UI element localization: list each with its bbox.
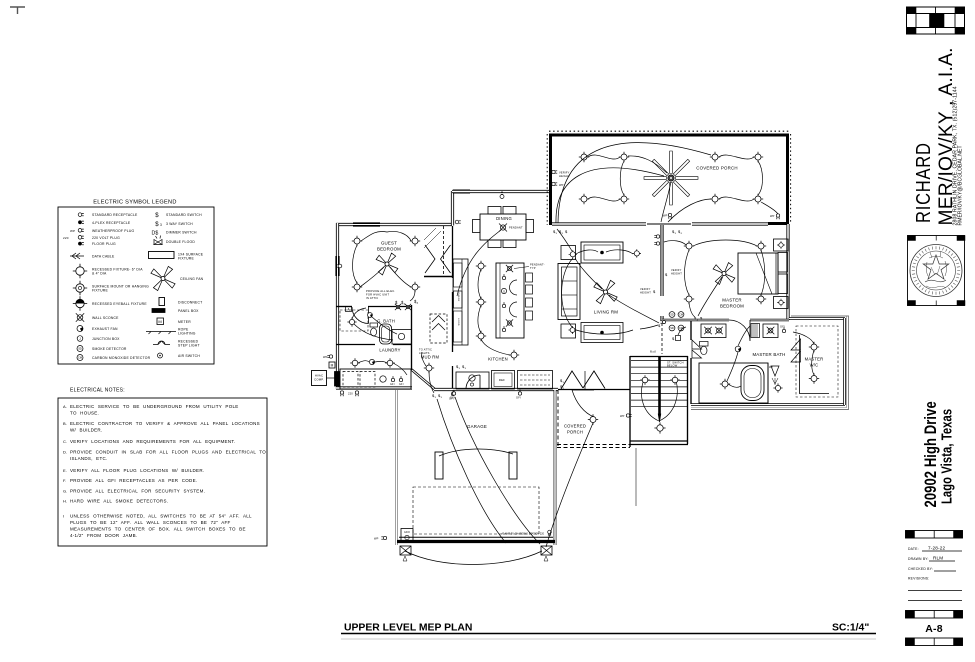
master bath wiring bbox=[727, 326, 750, 387]
svg-text:$: $ bbox=[155, 222, 159, 228]
master wc label bbox=[805, 357, 824, 368]
outer deck line master wc bbox=[691, 316, 849, 410]
wall master east bbox=[786, 224, 789, 320]
svg-text:GFI: GFI bbox=[390, 383, 395, 386]
date label and value bbox=[908, 546, 962, 552]
legend eyeball fixture bbox=[73, 296, 148, 310]
mud room gfi bbox=[449, 390, 455, 400]
svg-text:BELOW: BELOW bbox=[667, 364, 678, 368]
guest bedroom recessed light 2 bbox=[410, 236, 420, 246]
wall master wc east bbox=[843, 318, 846, 405]
living sofa wire bbox=[562, 258, 573, 327]
svg-text:GFI: GFI bbox=[516, 396, 521, 400]
svg-text:J: J bbox=[79, 337, 81, 341]
svg-text:ELECTRIC SERVICE TO BE UNDERGR: ELECTRIC SERVICE TO BE UNDERGROUND FROM … bbox=[70, 404, 239, 409]
lower porch light bbox=[588, 414, 598, 424]
legend standard switch bbox=[155, 213, 202, 219]
svg-text:ELECTRIC CONTRACTOR TO VERIFY: ELECTRIC CONTRACTOR TO VERIFY & APPROVE … bbox=[70, 421, 260, 426]
svg-text:C.: C. bbox=[63, 439, 67, 444]
laundry washer dryer dashed bbox=[343, 372, 375, 388]
guest bedroom recessed light 4 bbox=[410, 282, 420, 292]
laundry sink bbox=[380, 376, 386, 382]
svg-text:SD: SD bbox=[670, 313, 674, 317]
svg-text:REF: REF bbox=[499, 378, 505, 382]
svg-text:MASTER BATH: MASTER BATH bbox=[752, 352, 785, 357]
svg-text:GFI: GFI bbox=[399, 383, 404, 386]
master wiring bbox=[664, 240, 765, 317]
dining chairs bbox=[473, 207, 534, 248]
svg-text:GFI: GFI bbox=[450, 396, 455, 400]
legend 3 way switch bbox=[155, 222, 193, 228]
kitchen bar stools bbox=[526, 273, 533, 320]
legend exhaust fan bbox=[77, 326, 118, 332]
revision lines bbox=[908, 591, 962, 601]
svg-text:ELECTRIC SYMBOL LEGEND: ELECTRIC SYMBOL LEGEND bbox=[93, 200, 176, 206]
svg-text:WALL SCONCE: WALL SCONCE bbox=[92, 316, 119, 320]
living wall plugs right bbox=[654, 235, 659, 245]
svg-text:DISCONNECT: DISCONNECT bbox=[178, 301, 202, 305]
wall stairs east bbox=[687, 356, 689, 444]
svg-text:RMER/IOV/KY@/BCGLOBAL.NET: RMER/IOV/KY@/BCGLOBAL.NET bbox=[958, 145, 964, 225]
master nightstand bottom bbox=[774, 297, 789, 309]
panel box bbox=[335, 372, 340, 387]
legend wall sconce bbox=[76, 313, 119, 321]
kitchen lights wire bbox=[478, 269, 510, 355]
hatch covered porch east wall bbox=[790, 134, 792, 224]
svg-text:E.: E. bbox=[63, 468, 67, 473]
svg-text:G. BATH: G. BATH bbox=[377, 319, 395, 324]
guest bath toilet bbox=[370, 323, 378, 336]
meter bbox=[329, 362, 335, 368]
electrical notes text bbox=[63, 404, 266, 538]
master recessed lights bbox=[684, 241, 766, 304]
kitchen island bbox=[496, 263, 524, 338]
master smoke detectors bbox=[669, 312, 684, 331]
svg-text:IN ATTIC: IN ATTIC bbox=[366, 296, 378, 300]
guest bath vanity bbox=[392, 330, 412, 345]
svg-text:LIVING RM: LIVING RM bbox=[594, 310, 618, 315]
svg-text:CM: CM bbox=[679, 313, 683, 317]
living lamp wire to coffee table bbox=[576, 325, 658, 334]
master wc inner lines bbox=[800, 335, 830, 394]
garage door posts bbox=[435, 452, 517, 479]
svg-text:RLM: RLM bbox=[933, 556, 943, 561]
svg-text:220: 220 bbox=[63, 236, 69, 240]
guest closet bifold doors bbox=[425, 245, 451, 273]
dining ceiling fixture on wall bbox=[500, 192, 504, 199]
svg-text:LAUNDRY: LAUNDRY bbox=[379, 348, 400, 353]
wall master bath west bbox=[690, 321, 692, 404]
legend ceiling fan bbox=[151, 266, 204, 290]
living verify height notes bbox=[640, 268, 682, 294]
svg-text:TYP: TYP bbox=[530, 266, 536, 270]
legend disconnect bbox=[159, 298, 202, 306]
living ceiling fan bbox=[594, 280, 617, 303]
svg-text:WEATHERPROOF PLUG: WEATHERPROOF PLUG bbox=[92, 229, 134, 233]
titleblock divider bar 3 bbox=[906, 638, 963, 646]
guest bedroom wall sconce left bbox=[336, 264, 342, 268]
stair rail bbox=[658, 357, 661, 422]
guest bedroom ceiling fan bbox=[376, 253, 398, 275]
svg-text:FIXTURE: FIXTURE bbox=[178, 257, 194, 261]
svg-text:DATE:: DATE: bbox=[908, 547, 919, 551]
svg-text:B.: B. bbox=[63, 421, 67, 426]
master vanity right bbox=[763, 324, 778, 338]
wall stairs south bbox=[630, 441, 688, 445]
garage wp plug outside bbox=[374, 536, 387, 540]
svg-text:TO HOUSE.: TO HOUSE. bbox=[70, 411, 99, 416]
svg-text:Rail: Rail bbox=[650, 350, 656, 354]
wall garage east bbox=[554, 390, 557, 545]
kitchen pantry bbox=[518, 371, 553, 390]
kitchen range label bbox=[457, 293, 460, 326]
svg-text:BEDROOM: BEDROOM bbox=[377, 247, 401, 252]
svg-text:UPPER LEVEL MEP PLAN: UPPER LEVEL MEP PLAN bbox=[344, 623, 472, 634]
lower porch wp label bbox=[620, 414, 632, 418]
guest bath exhaust fan bbox=[368, 313, 373, 318]
svg-text:D$: D$ bbox=[151, 231, 158, 237]
kitchen refrigerator bbox=[492, 371, 515, 390]
svg-text:CM: CM bbox=[78, 356, 82, 360]
legend box bbox=[58, 207, 214, 364]
lower porch door arc bbox=[572, 390, 594, 417]
svg-text:G.: G. bbox=[63, 489, 68, 494]
svg-text:DIMMER SWITCH: DIMMER SWITCH bbox=[166, 231, 197, 235]
dining pendant wire bbox=[457, 230, 501, 296]
garage gdo box bbox=[401, 529, 413, 543]
master linen shelves bbox=[751, 324, 760, 338]
garage wire from ev to porch bbox=[546, 423, 593, 547]
mud room wiring bbox=[422, 352, 434, 393]
legend rope lighting bbox=[146, 328, 196, 336]
porch light wires bbox=[588, 155, 778, 214]
svg-text:SC:1/4": SC:1/4" bbox=[832, 623, 869, 634]
guest bath tub bbox=[380, 324, 392, 344]
master shower bbox=[768, 363, 779, 403]
master tub light bbox=[720, 379, 730, 389]
porch recessed lights row1 bbox=[579, 152, 763, 162]
svg-text:Lago Vista, Texas: Lago Vista, Texas bbox=[938, 409, 955, 504]
wall stairs north bbox=[630, 356, 688, 358]
svg-text:MEASUREMENTS TO CENTER OF BOX.: MEASUREMENTS TO CENTER OF BOX. ALL SWITC… bbox=[70, 527, 246, 532]
wall dining west bbox=[451, 191, 454, 226]
svg-text:WP: WP bbox=[770, 214, 775, 218]
guest bath light bbox=[347, 317, 356, 326]
guest bedroom switches bbox=[395, 299, 419, 306]
svg-text:STANDARD RECEPTACLE: STANDARD RECEPTACLE bbox=[92, 213, 138, 217]
living sofa table bbox=[581, 242, 623, 263]
wall covered porch north bbox=[549, 134, 789, 137]
dining wall fixture left bbox=[455, 220, 461, 224]
kitchen gfi below wall bbox=[450, 390, 522, 400]
svg-text:SD: SD bbox=[670, 326, 674, 330]
svg-text:M: M bbox=[331, 364, 334, 368]
svg-text:MASTER: MASTER bbox=[722, 298, 742, 303]
svg-text:WP: WP bbox=[663, 214, 668, 218]
svg-text:H.: H. bbox=[63, 499, 67, 504]
living switches at master wall bbox=[658, 320, 666, 328]
svg-text:AIR SWITCH: AIR SWITCH bbox=[178, 354, 200, 358]
legend panel box bbox=[152, 309, 199, 314]
svg-text:LIGHTING: LIGHTING bbox=[178, 332, 196, 336]
electrical notes box bbox=[58, 398, 267, 546]
svg-text:CHECKED BY:: CHECKED BY: bbox=[908, 567, 933, 571]
living fan wiring bbox=[575, 258, 659, 323]
checked by label bbox=[908, 567, 956, 571]
guest bedroom hvac note bbox=[366, 289, 395, 300]
living lamp left bbox=[569, 250, 577, 258]
svg-text:HEIGHT: HEIGHT bbox=[671, 271, 682, 275]
master wc shelves dashed bbox=[796, 326, 838, 397]
laundry counter bbox=[340, 369, 411, 389]
kitchen recessed lights bbox=[476, 261, 519, 360]
guest closet walls bbox=[424, 226, 453, 277]
stair treads bbox=[631, 361, 687, 407]
legend meter bbox=[157, 318, 191, 325]
guest bedroom label bbox=[377, 241, 401, 252]
svg-text:GARAGE: GARAGE bbox=[467, 424, 487, 429]
svg-text:VERIFY ALL FLOOR PLUG LOCATION: VERIFY ALL FLOOR PLUG LOCATIONS W/ BUILD… bbox=[70, 468, 204, 473]
hvac compressor box bbox=[312, 371, 327, 386]
garage door jamb left bbox=[400, 546, 411, 561]
legend carbon monoxide detector bbox=[77, 355, 151, 361]
svg-text:220: 220 bbox=[348, 392, 353, 396]
svg-text:HOOD: HOOD bbox=[457, 318, 459, 326]
kitchen door arc bbox=[466, 375, 480, 389]
guest closet hatch bbox=[424, 228, 441, 248]
stair light right bbox=[670, 375, 680, 385]
stair wire loop bbox=[641, 377, 677, 421]
master bed bbox=[738, 253, 788, 295]
living end table bottom bbox=[561, 324, 577, 338]
svg-text:TO ATTIC: TO ATTIC bbox=[419, 348, 432, 352]
master bath toilet bbox=[700, 342, 709, 355]
svg-text:DINING: DINING bbox=[496, 216, 512, 221]
svg-text:GDO: GDO bbox=[404, 531, 410, 534]
kitchen island pendants bbox=[506, 265, 513, 327]
laundry 220 plug bbox=[340, 391, 358, 396]
guest bath wiring bbox=[352, 308, 397, 340]
svg-text:ELECTRICAL NOTES:: ELECTRICAL NOTES: bbox=[70, 388, 125, 394]
kitchen west cabinets bbox=[453, 259, 468, 345]
svg-text:FIXTURE: FIXTURE bbox=[92, 289, 108, 293]
porch feeder arcs bbox=[556, 143, 711, 223]
porch southwest switches bbox=[553, 229, 568, 235]
garage ev plug bbox=[548, 530, 552, 536]
svg-text:4-1/2" FROM DOOR JAMB.: 4-1/2" FROM DOOR JAMB. bbox=[70, 533, 137, 538]
svg-text:PROVIDE ALL GFI RECEPTACLES AS: PROVIDE ALL GFI RECEPTACLES AS PER CODE. bbox=[70, 478, 197, 483]
svg-text:BEDROOM: BEDROOM bbox=[720, 304, 744, 309]
legend receptacle symbols bbox=[63, 213, 84, 246]
laundry lights bbox=[350, 358, 395, 368]
guest bedroom recessed light 1 bbox=[352, 236, 362, 246]
legend smoke detector bbox=[77, 346, 127, 352]
roof break zigzag porch-lower bbox=[561, 371, 605, 389]
svg-text:HARD WIRE ALL SMOKE DETECTORS.: HARD WIRE ALL SMOKE DETECTORS. bbox=[70, 499, 168, 504]
svg-text:FLOOR PLUG: FLOOR PLUG bbox=[92, 242, 116, 246]
master switches bbox=[694, 316, 703, 322]
wall bath-laundry east bbox=[411, 305, 413, 370]
master wc wiring bbox=[793, 332, 814, 375]
svg-text:LIGHTS: LIGHTS bbox=[419, 351, 430, 355]
wall master wc north bbox=[789, 317, 845, 320]
svg-text:40 AMP EV CHARGING STATION 220: 40 AMP EV CHARGING STATION 220 bbox=[501, 533, 544, 536]
wall porch-lower north bbox=[558, 389, 630, 391]
svg-text:7-28-22: 7-28-22 bbox=[928, 546, 945, 551]
porch-lower south dashed edge bbox=[557, 445, 630, 448]
guest bath sconces bbox=[395, 304, 411, 310]
legend data cable bbox=[70, 253, 115, 259]
lower porch label bbox=[564, 424, 586, 435]
svg-text:CARBON MONOXIDE DETECTOR: CARBON MONOXIDE DETECTOR bbox=[92, 356, 151, 360]
hatch covered porch north wall bbox=[549, 130, 789, 132]
living coffee table bbox=[581, 323, 623, 343]
window house west wall bbox=[335, 256, 339, 276]
garage door jamb right bbox=[541, 546, 552, 561]
page registration mark bbox=[10, 7, 25, 14]
legend recessed fixture bbox=[73, 264, 143, 278]
wp plug left wall bbox=[323, 355, 333, 359]
mud room lockers dashed bbox=[430, 314, 447, 343]
drawn by label and value bbox=[908, 556, 955, 562]
svg-text:PROVIDE ALL ELEC.: PROVIDE ALL ELEC. bbox=[366, 289, 395, 293]
svg-text:3 WAY SWITCH: 3 WAY SWITCH bbox=[166, 222, 193, 226]
porch sliding door bbox=[647, 223, 691, 225]
svg-text:DRAWN BY:: DRAWN BY: bbox=[908, 557, 929, 561]
svg-text:COMP.: COMP. bbox=[314, 378, 324, 382]
svg-text:PLUGS TO BE 12" AFF. ALL WALL: PLUGS TO BE 12" AFF. ALL WALL SCONCES TO… bbox=[70, 520, 231, 525]
svg-text:PROVIDE CONDUIT IN SLAB FOR AL: PROVIDE CONDUIT IN SLAB FOR ALL FLOOR PL… bbox=[70, 450, 266, 455]
svg-text:HEIGHT: HEIGHT bbox=[640, 290, 651, 294]
svg-text:SD: SD bbox=[78, 347, 82, 351]
svg-text:WP: WP bbox=[620, 414, 625, 418]
svg-text:W/ BUILDER.: W/ BUILDER. bbox=[70, 428, 102, 433]
svg-text:COVERED: COVERED bbox=[564, 424, 586, 429]
svg-text:A.: A. bbox=[63, 404, 67, 409]
wall hall-kitchen west bbox=[452, 226, 454, 389]
wall guest bath north bbox=[336, 306, 412, 308]
master door arc bbox=[729, 320, 750, 341]
kitchen wire arcs to garage bbox=[437, 397, 540, 544]
wall covered porch south segment 1 bbox=[552, 222, 646, 225]
master tub bbox=[741, 366, 764, 401]
svg-text:WP: WP bbox=[374, 537, 379, 541]
wall living-master divider bbox=[660, 225, 663, 321]
svg-text:STANDARD SWITCH: STANDARD SWITCH bbox=[166, 213, 202, 217]
titleblock divider bar 1 bbox=[906, 531, 963, 539]
wall house west bbox=[336, 223, 339, 389]
master shower light bbox=[773, 383, 782, 392]
svg-text:D.: D. bbox=[63, 450, 67, 455]
kitchen switches bbox=[456, 364, 467, 370]
wall laundry south bbox=[336, 386, 412, 389]
svg-text:JUNCTION BOX: JUNCTION BOX bbox=[92, 337, 120, 341]
svg-text:METER: METER bbox=[178, 320, 191, 324]
legend 1x4 surface fixture bbox=[149, 252, 204, 261]
wall master south bbox=[662, 319, 789, 322]
mud room light bbox=[424, 363, 434, 373]
master wc doors bbox=[692, 340, 702, 358]
svg-text:RANGE: RANGE bbox=[457, 293, 460, 302]
svg-text:SMOKE DETECTOR: SMOKE DETECTOR bbox=[92, 347, 127, 351]
legend junction box bbox=[77, 336, 120, 342]
svg-text:CEILING FAN: CEILING FAN bbox=[180, 277, 204, 281]
master nightstand top bbox=[774, 239, 789, 251]
wall covered porch west bbox=[549, 134, 552, 225]
window dining top wall bbox=[453, 190, 470, 194]
svg-text:4-PLEX RECEPTACLE: 4-PLEX RECEPTACLE bbox=[92, 221, 131, 225]
svg-text:STEP LIGHT: STEP LIGHT bbox=[178, 344, 200, 348]
wall guest bedroom top bbox=[336, 223, 452, 226]
legend surface mount fixture bbox=[73, 281, 149, 295]
stair label ST SWITCH BELOW bbox=[667, 361, 684, 368]
svg-text:RECESSED EYEBALL FIXTURE: RECESSED EYEBALL FIXTURE bbox=[92, 302, 147, 306]
porch south middle switches bbox=[663, 213, 683, 235]
master tub platform bbox=[699, 363, 768, 403]
guest bedroom wiring bbox=[353, 231, 416, 301]
architect seal circle bbox=[910, 245, 962, 297]
legend dimmer switch bbox=[151, 231, 197, 237]
svg-text:WP: WP bbox=[70, 229, 75, 233]
wall covered porch south segment 2 bbox=[692, 222, 768, 225]
legend double flood bbox=[154, 236, 195, 245]
master vanity left bbox=[701, 324, 726, 338]
kitchen island gfi bbox=[502, 274, 505, 332]
wall garage west bbox=[395, 390, 398, 545]
legend receptacle labels bbox=[92, 213, 138, 246]
svg-text:PORCH: PORCH bbox=[567, 430, 583, 435]
svg-text:DATA CABLE: DATA CABLE bbox=[92, 255, 115, 259]
living sofa bbox=[558, 264, 580, 320]
lower porch switches bbox=[560, 378, 565, 390]
downspout line below stairs bbox=[635, 448, 637, 506]
title second line bbox=[341, 638, 876, 640]
living end table top bbox=[561, 246, 576, 260]
legend recessed step light bbox=[153, 340, 200, 348]
living lamp right bbox=[633, 249, 641, 257]
stair light left bbox=[640, 375, 650, 385]
svg-text:FOR HVAC UNIT: FOR HVAC UNIT bbox=[366, 293, 389, 297]
master bath exhaust fan bbox=[735, 346, 741, 352]
hall wiring bbox=[678, 327, 686, 335]
porch verify height notes bbox=[552, 170, 570, 187]
garage underground service arc bbox=[405, 551, 542, 565]
svg-text:COVERED PORCH: COVERED PORCH bbox=[696, 166, 737, 171]
svg-text:$: $ bbox=[155, 213, 159, 219]
guest bath shower dashed bbox=[340, 310, 368, 331]
to attic lights note bbox=[419, 348, 432, 356]
svg-text:WP: WP bbox=[559, 183, 564, 187]
master ceiling fan bbox=[713, 263, 735, 285]
kitchen south counter bbox=[456, 372, 489, 389]
svg-text:UNLESS OTHERWISE NOTED, ALL SW: UNLESS OTHERWISE NOTED, ALL SWITCHES TO … bbox=[70, 514, 252, 519]
living wire to porch switches bbox=[557, 229, 572, 251]
garage door dashed rect bbox=[413, 487, 539, 534]
svg-text:WP: WP bbox=[769, 366, 773, 369]
svg-text:HEIGHT: HEIGHT bbox=[559, 174, 570, 178]
porch southeast wp bbox=[770, 214, 780, 219]
svg-text:M: M bbox=[158, 319, 162, 324]
mud room switches bbox=[432, 393, 443, 399]
svg-text:ISLANDS, ETC.: ISLANDS, ETC. bbox=[70, 456, 108, 461]
porch-lower west dashed edge bbox=[557, 390, 559, 447]
svg-text:PROVIDE ALL ELECTRICAL FOR SEC: PROVIDE ALL ELECTRICAL FOR SECURITY SYST… bbox=[70, 489, 205, 494]
laundry gfi receptacles bbox=[390, 376, 404, 386]
legend air switch bbox=[158, 353, 201, 358]
svg-text:WP: WP bbox=[323, 355, 328, 359]
svg-text:PENDANT: PENDANT bbox=[509, 226, 523, 230]
guest bedroom recessed light 3 bbox=[352, 282, 362, 292]
